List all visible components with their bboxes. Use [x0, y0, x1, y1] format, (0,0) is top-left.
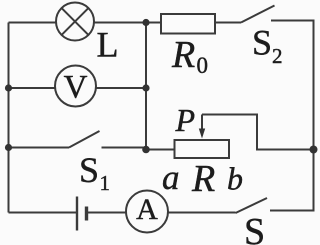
svg-text:S: S: [79, 150, 99, 190]
switch S1 blade: [69, 131, 100, 148]
rheostat slider stem P: [201, 115, 203, 131]
wire: middle rail to rheostat terminal a: [146, 149, 175, 151]
rheostat slider arrowhead: [199, 129, 205, 139]
svg-text:a: a: [162, 158, 180, 197]
svg-text:1: 1: [100, 171, 111, 195]
wire: battery to ammeter: [87, 212, 127, 214]
wire: ammeter to S pivot: [168, 212, 236, 214]
junction: left rail / voltmeter branch: [5, 84, 12, 91]
svg-text:P: P: [175, 102, 196, 138]
wire: top rail left segment to lamp: [9, 22, 57, 24]
wire: voltmeter branch right: [96, 87, 146, 89]
resistor R0 body: [161, 14, 215, 34]
svg-text:S: S: [252, 23, 272, 63]
svg-text:0: 0: [197, 53, 209, 78]
svg-text:2: 2: [272, 44, 283, 68]
junction: middle rail / voltmeter branch: [142, 84, 149, 91]
svg-text:V: V: [64, 70, 88, 106]
wire: left vertical rail: [8, 23, 10, 213]
svg-text:L: L: [97, 25, 119, 65]
lamp L cross: [62, 8, 89, 35]
wire: S1 row left segment: [9, 147, 70, 149]
voltmeter V circle: [55, 66, 96, 107]
junction: left rail / S1 row: [5, 144, 12, 151]
wire: middle vertical rail: [145, 23, 147, 150]
svg-text:R: R: [191, 158, 215, 200]
wire: slider P up-over-down to right rail: [202, 115, 314, 150]
battery short plate (-): [85, 207, 88, 221]
svg-text:A: A: [136, 193, 158, 226]
lamp L circle: [56, 3, 94, 41]
wire: R0 to S2 pivot: [215, 22, 241, 24]
switch S blade: [236, 198, 268, 213]
wire: S1 contact to middle rail: [102, 147, 147, 149]
svg-text:R: R: [171, 34, 195, 76]
switch S2 blade: [241, 6, 275, 23]
junction: middle rail / rheostat wire: [142, 146, 150, 154]
ammeter A circle: [126, 191, 168, 233]
wire: voltmeter branch left: [9, 87, 56, 89]
wire: lamp to R0: [94, 22, 161, 24]
svg-text:S: S: [244, 211, 265, 245]
svg-text:b: b: [227, 161, 243, 197]
junction: top rail / middle rail: [142, 19, 149, 26]
rheostat R body: [175, 140, 230, 158]
junction: right rail / slider wire: [310, 146, 318, 154]
wire: bottom rail left to battery: [9, 212, 77, 214]
battery long plate (+): [76, 197, 78, 231]
wire: S2 contact, right rail, bottom-right stub: [270, 21, 314, 211]
